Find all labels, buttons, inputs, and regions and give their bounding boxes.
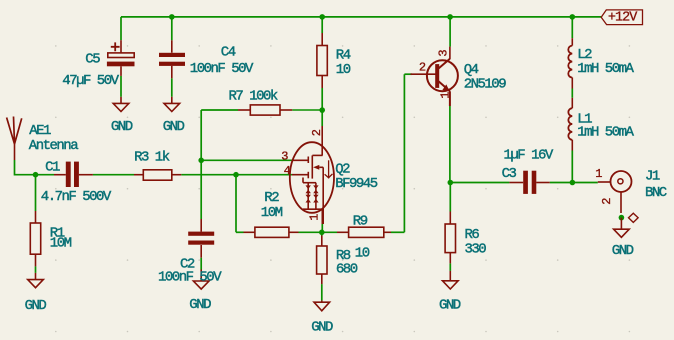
svg-text:1: 1: [308, 214, 322, 221]
svg-text:GND: GND: [163, 119, 185, 135]
svg-text:2: 2: [419, 60, 426, 74]
svg-text:J1: J1: [645, 169, 660, 185]
svg-text:4: 4: [284, 164, 291, 178]
svg-text:1: 1: [595, 167, 602, 181]
svg-text:C3: C3: [502, 166, 517, 182]
svg-text:GND: GND: [25, 298, 47, 314]
svg-text:1µF 16V: 1µF 16V: [504, 148, 554, 164]
svg-text:330: 330: [465, 242, 487, 258]
svg-text:R2: R2: [264, 190, 279, 206]
svg-text:10: 10: [355, 245, 370, 261]
svg-text:AE1: AE1: [29, 123, 51, 139]
svg-text:R9: R9: [353, 214, 368, 230]
svg-text:10M: 10M: [261, 205, 283, 221]
svg-text:R6: R6: [465, 227, 480, 243]
svg-text:10: 10: [336, 62, 351, 78]
svg-text:Antenna: Antenna: [29, 138, 78, 154]
svg-text:R3 1k: R3 1k: [134, 149, 170, 165]
svg-text:C1: C1: [45, 159, 60, 175]
svg-text:GND: GND: [111, 119, 133, 135]
svg-text:680: 680: [336, 261, 358, 277]
svg-text:+12V: +12V: [608, 11, 638, 26]
svg-text:2N5109: 2N5109: [464, 76, 507, 92]
svg-text:3: 3: [281, 149, 288, 163]
svg-text:2: 2: [310, 129, 324, 136]
svg-text:10M: 10M: [50, 235, 72, 251]
svg-text:1mH 50mA: 1mH 50mA: [577, 125, 634, 141]
svg-text:R7 100k: R7 100k: [229, 88, 278, 104]
svg-text:BNC: BNC: [645, 185, 667, 201]
svg-text:C5: C5: [85, 52, 100, 68]
svg-text:1: 1: [438, 92, 452, 99]
svg-text:BF9945: BF9945: [335, 176, 378, 192]
svg-text:3: 3: [437, 50, 451, 57]
svg-text:GND: GND: [612, 243, 634, 259]
svg-text:100nF 50V: 100nF 50V: [158, 269, 222, 285]
svg-text:100nF 50V: 100nF 50V: [190, 61, 254, 77]
svg-text:GND: GND: [311, 319, 333, 335]
svg-text:4.7nF 500V: 4.7nF 500V: [41, 189, 112, 205]
svg-text:2: 2: [600, 198, 614, 205]
svg-text:C4: C4: [221, 44, 236, 60]
svg-text:1mH 50mA: 1mH 50mA: [577, 61, 634, 77]
svg-text:GND: GND: [439, 297, 461, 313]
svg-text:GND: GND: [189, 297, 211, 313]
svg-text:47µF 50V: 47µF 50V: [62, 73, 119, 89]
